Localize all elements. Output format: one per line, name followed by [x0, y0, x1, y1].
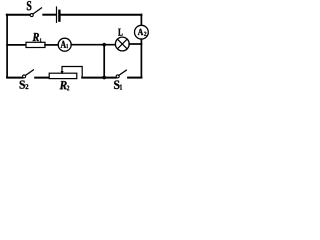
wire A1 to lamp: [71, 44, 115, 46]
switch S1 blade: [119, 70, 127, 75]
switch S1 hinge: [116, 75, 119, 78]
wire switch S to battery: [43, 14, 55, 16]
resistor R1 body: [26, 42, 45, 47]
wire top-left segment: [7, 14, 30, 16]
ammeter A2 body: [135, 25, 149, 39]
label R2 sub 2: [67, 86, 69, 91]
ammeter A1 body: [58, 38, 71, 51]
junction node at lamp branch top: [103, 43, 106, 46]
battery long plate: [56, 7, 58, 22]
rheostat R2 wiper bracket: [62, 67, 82, 78]
label S2 S: [20, 80, 25, 88]
battery short thick plate: [58, 11, 60, 21]
wire bracket to S1: [82, 77, 116, 79]
switch S hinge: [30, 14, 33, 17]
label R1 R: [33, 33, 39, 41]
label A1 sub 1: [66, 44, 68, 48]
label A1 A: [61, 41, 66, 48]
rheostat R2 wiper arrowhead: [61, 71, 64, 74]
wire middle branch left: [7, 44, 26, 46]
switch S blade: [33, 8, 42, 14]
wire lamp to right vertical: [129, 43, 141, 45]
label A2 A: [138, 29, 143, 35]
label R1 sub 1: [40, 38, 42, 41]
label S2 sub 2: [26, 84, 29, 89]
label R2 R: [60, 81, 67, 89]
wire bottom-left segment: [7, 77, 23, 79]
label S1 S: [114, 80, 119, 89]
wire S1 to bottom-right corner: [128, 77, 141, 79]
switch S2 blade: [26, 70, 34, 76]
wire S2 to rheostat: [35, 77, 49, 79]
wire battery to top-right corner: [61, 14, 142, 16]
wire left vertical: [6, 15, 8, 78]
junction node at bottom wire: [103, 76, 106, 79]
rheostat R2 body: [49, 73, 77, 78]
wire right vertical upper: [140, 15, 142, 26]
wire R1 to A1: [45, 44, 58, 46]
switch S2 hinge: [23, 75, 26, 78]
wire right vertical lower: [140, 39, 142, 77]
label S: [27, 1, 31, 10]
label L: [118, 29, 122, 36]
lamp L body: [115, 37, 129, 51]
label S1 sub 1: [120, 84, 122, 89]
label A2 sub 2: [144, 32, 146, 36]
lamp L cross: [118, 39, 128, 49]
wire middle-to-bottom connector: [103, 45, 105, 78]
